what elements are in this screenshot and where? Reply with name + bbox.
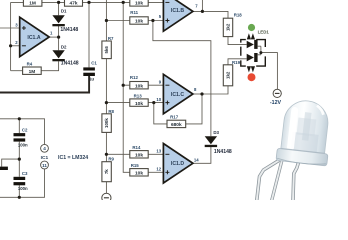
wire LED1 cathode tie bar: [258, 46, 261, 55]
resistor R12 10k: [130, 82, 148, 89]
IC1 pin 4 supply circle: [41, 144, 49, 152]
svg-text:100n: 100n: [18, 186, 28, 191]
svg-text:C2: C2: [22, 128, 28, 133]
resistor R8 vertical: [102, 114, 111, 133]
svg-text:IC1.A: IC1.A: [27, 35, 40, 41]
capacitor C3 100n: [14, 177, 26, 180]
svg-text:5k6: 5k6: [104, 46, 109, 54]
svg-text:12: 12: [156, 167, 161, 172]
svg-text:2: 2: [15, 40, 18, 45]
resistor R9 vertical: [102, 162, 111, 182]
LED1 package outline: [241, 40, 265, 67]
node IC1.A pin2: [9, 44, 12, 47]
plus sign IC1.B pin5: [165, 19, 169, 23]
node LED1 common cathode: [259, 51, 262, 54]
svg-text:10k: 10k: [135, 1, 143, 7]
wire R12 row to IC1.C pin 9: [123, 84, 163, 86]
op-amp IC1.B: [163, 0, 193, 31]
svg-text:1M: 1M: [29, 1, 36, 7]
svg-text:1k2: 1k2: [226, 23, 231, 31]
svg-text:C3: C3: [22, 171, 28, 176]
capacitor C2 100n: [14, 133, 26, 136]
node pin10 / R17: [152, 101, 155, 104]
diode D1 1N4148: [52, 15, 64, 23]
wire R4 left lead: [11, 70, 23, 72]
wire IC1.A pin 3 input from left edge: [0, 27, 20, 29]
resistor R18 vertical: [223, 18, 232, 36]
LED1 emission arrows up: [247, 33, 251, 39]
wire R13 row to IC1.C pin 10: [106, 102, 163, 104]
svg-text:3: 3: [15, 22, 18, 27]
wire R17 right lead up to output node: [186, 94, 202, 124]
wire IC1.A output to node A: [49, 36, 58, 38]
plus sign IC1.C pin10: [165, 101, 169, 105]
svg-text:R17: R17: [170, 115, 179, 120]
wire LED1 red anode to R19 top: [228, 59, 247, 65]
wire left vertical from top rail down to R4: [10, 2, 12, 70]
svg-text:9: 9: [159, 80, 162, 85]
svg-text:100k: 100k: [104, 118, 109, 128]
svg-text:-12V: -12V: [270, 100, 282, 106]
svg-text:R18: R18: [234, 13, 243, 18]
diode D3 1N4148: [205, 136, 217, 144]
wire left stub to edge plate: [2, 159, 20, 166]
plus sign IC1.D pin12: [165, 170, 169, 174]
supply terminal circle below R9: [102, 193, 111, 202]
wire R14 row to IC1.D pin 13: [106, 153, 163, 155]
svg-text:R7: R7: [108, 36, 114, 41]
svg-text:LED1: LED1: [258, 30, 270, 35]
LED1 red element: [247, 54, 254, 62]
wire IC1.C output pin 8: [192, 93, 202, 95]
resistor R10 10k: [130, 0, 148, 6]
wire divider column x=106.4: [105, 0, 107, 193]
diode D2 1N4148: [52, 50, 64, 58]
node pin5 feedback: [151, 19, 154, 22]
node IC1.B output: [201, 10, 204, 13]
op-amp IC1.A: [20, 17, 50, 57]
node top rail / D1: [57, 1, 60, 4]
resistor R19 vertical: [223, 65, 232, 86]
svg-text:47k: 47k: [69, 1, 77, 7]
node top rail / C1: [87, 1, 90, 4]
wire C2 C3 column: [18, 119, 20, 198]
svg-text:R13: R13: [134, 94, 143, 99]
resistor 47k top: [65, 0, 83, 6]
svg-text:C1: C1: [91, 61, 97, 66]
op-amp IC1.C: [163, 74, 193, 114]
wire supply rail to IC1 pin 4 circle: [0, 119, 45, 145]
wire stub up from IC1.B output node to image top: [201, 0, 203, 11]
-12V supply terminal circle right: [273, 89, 281, 97]
svg-text:13: 13: [156, 149, 161, 154]
node divider tap R13: [105, 101, 108, 104]
svg-text:D1: D1: [61, 9, 67, 14]
resistor R13 10k: [130, 99, 148, 106]
wire IC1 pin 11 circle down to bottom rail: [0, 169, 45, 197]
svg-text:10k: 10k: [135, 83, 143, 89]
green indicator dot: [248, 24, 255, 31]
svg-text:14: 14: [194, 158, 199, 163]
resistor R17 680k: [167, 120, 186, 127]
wire D3 cathode down to IC1.D output: [191, 147, 211, 164]
minus sign IC1.A pin2: [22, 45, 26, 47]
minus sign IC1.D pin13: [165, 153, 169, 155]
resistor R11 10k: [130, 17, 148, 24]
svg-text:7: 7: [195, 4, 198, 9]
wire R15 row to IC1.D pin 12: [148, 171, 163, 173]
svg-text:1N4148: 1N4148: [60, 27, 78, 33]
edge plate fragment bottom left: [0, 167, 8, 170]
svg-text:7k: 7k: [104, 169, 109, 174]
svg-text:IC1: IC1: [41, 155, 49, 161]
svg-text:R19: R19: [232, 60, 241, 65]
svg-text:D3: D3: [213, 130, 219, 135]
op-amp IC1.D: [163, 144, 193, 184]
wire C1 top lead from top rail: [88, 2, 90, 67]
svg-text:R11: R11: [130, 10, 138, 15]
LED1 green element anode left cathode right: [247, 41, 254, 49]
LED1 emission arrows down: [247, 66, 251, 72]
resistor R4 1M: [23, 67, 42, 74]
node divider tap R14: [105, 153, 108, 156]
wire feedback from pin5 node down right to D3 anode: [153, 21, 211, 137]
svg-text:IC1 = LM324: IC1 = LM324: [58, 155, 88, 161]
resistor R15 10k: [130, 169, 148, 176]
svg-text:100n: 100n: [18, 143, 28, 148]
node A IC1.A output D1 D2: [57, 36, 60, 39]
plus sign IC1.A pin3: [22, 26, 26, 30]
svg-text:1N4148: 1N4148: [61, 60, 79, 66]
photo of clear LED bottom right: [257, 98, 334, 200]
wire IC1.A pin 2 input: [11, 45, 20, 47]
node bottom rail / C3: [18, 196, 21, 199]
svg-text:R8: R8: [108, 109, 114, 114]
svg-text:11: 11: [42, 163, 47, 168]
svg-text:R12: R12: [130, 75, 139, 80]
svg-text:10k: 10k: [135, 19, 143, 25]
wire column x=123.2 from top rail down to R15: [123, 2, 130, 172]
svg-text:1k2: 1k2: [226, 71, 231, 79]
wire R4 right lead up to D2 cathode: [41, 61, 58, 70]
wire R11 row to IC1.B pin 5: [106, 20, 163, 22]
svg-text:1: 1: [50, 30, 53, 35]
svg-text:4: 4: [43, 146, 46, 151]
resistor R7 vertical: [102, 41, 111, 59]
capacitor C1 1u: [83, 67, 95, 70]
node x123 / R12: [122, 84, 125, 87]
resistor R14 10k: [130, 151, 148, 158]
node top rail / x123 column: [122, 1, 125, 4]
svg-text:1u: 1u: [89, 76, 94, 81]
svg-text:R4: R4: [27, 62, 33, 67]
red indicator dot: [248, 73, 256, 81]
svg-text:8: 8: [194, 87, 197, 92]
svg-text:10k: 10k: [135, 171, 143, 177]
node IC1.C output pin 8: [200, 92, 203, 95]
minus sign IC1.B pin6: [165, 1, 169, 3]
svg-text:IC1.D: IC1.D: [171, 161, 184, 167]
svg-text:IC1.B: IC1.B: [171, 8, 184, 14]
wire LED1 common cathode to -12V terminal: [261, 53, 278, 90]
svg-text:10: 10: [156, 97, 161, 102]
thick ground bus from C1 to left edge: [0, 76, 89, 93]
wire R18 bottom to LED1 green anode: [228, 37, 247, 45]
node divider tap R11: [105, 19, 108, 22]
svg-text:1M: 1M: [29, 69, 36, 75]
node supply rail / C2: [18, 117, 21, 120]
wire R19 bottom to IC1.C output node: [202, 86, 228, 94]
wire top supply rail y=2.4: [11, 1, 164, 3]
wire D1 column: [58, 2, 60, 37]
svg-text:10k: 10k: [135, 153, 143, 159]
svg-text:10k: 10k: [135, 101, 143, 107]
minus sign IC1.C pin9: [165, 84, 169, 86]
svg-text:R9: R9: [108, 157, 114, 162]
wire D2 column: [58, 37, 60, 50]
node C2 C3 / left stub: [18, 158, 21, 161]
svg-text:680k: 680k: [171, 122, 182, 128]
svg-text:1N4148: 1N4148: [214, 149, 232, 155]
wire R17 left lead up to pin 10 node: [154, 103, 167, 124]
svg-text:5: 5: [159, 14, 162, 19]
svg-text:R14: R14: [132, 145, 141, 150]
wire IC1.B output node to R18: [192, 11, 228, 18]
svg-text:D2: D2: [61, 44, 67, 49]
resistor 1M top left: [23, 0, 42, 6]
svg-text:IC1.C: IC1.C: [171, 92, 184, 98]
IC1 pin 11 supply circle: [41, 161, 49, 169]
svg-text:R15: R15: [131, 163, 140, 168]
